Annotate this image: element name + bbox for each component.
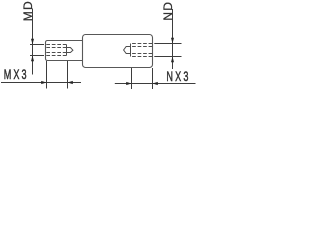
M×3 arrow left bbox=[68, 81, 73, 84]
MD extension line bottom bbox=[30, 55, 44, 57]
right drill point bbox=[124, 47, 131, 54]
ND arrow down bbox=[171, 38, 174, 44]
ND extension line bottom bbox=[154, 56, 181, 58]
MD arrow up bbox=[31, 56, 34, 62]
left tapped hole M: inner pilot-hole dashed lines bbox=[46, 47, 66, 49]
right thread end line bbox=[130, 44, 132, 57]
right tapped hole N: inner pilot-hole dashed lines bbox=[131, 46, 153, 48]
ND arrow up bbox=[171, 57, 174, 63]
left drill point bbox=[67, 48, 73, 53]
MD extension line top bbox=[30, 44, 44, 46]
N×3 dimension line with tails and underline bbox=[115, 83, 196, 85]
M×3 arrow right bbox=[41, 81, 46, 84]
svg-text:NX3: NX3 bbox=[166, 69, 190, 84]
N×3 arrow left bbox=[153, 82, 158, 85]
ND dimension line upper bbox=[172, 9, 174, 69]
M×3 dimension line with tails bbox=[1, 82, 81, 84]
svg-text:MD: MD bbox=[21, 0, 35, 21]
MD arrow down bbox=[31, 39, 34, 45]
N×3 arrow right bbox=[126, 82, 131, 85]
left tapped hole M: outer thread dashed lines bbox=[46, 45, 66, 56]
large body (right section) bbox=[83, 35, 153, 68]
MD dimension line upper bbox=[32, 9, 34, 75]
N thread depth: extension line from thread end bbox=[131, 68, 133, 89]
small cylinder body (left section) bbox=[46, 41, 84, 61]
svg-text:MX3: MX3 bbox=[4, 67, 29, 82]
left thread end line bbox=[66, 45, 68, 56]
N thread depth: extension line from face bbox=[152, 68, 154, 89]
right tapped hole N: outer thread dashed lines bbox=[131, 44, 153, 57]
M thread depth: extension line from face bbox=[46, 61, 48, 89]
M thread depth: extension line from thread end bbox=[67, 61, 69, 89]
ND extension line top bbox=[154, 43, 181, 45]
